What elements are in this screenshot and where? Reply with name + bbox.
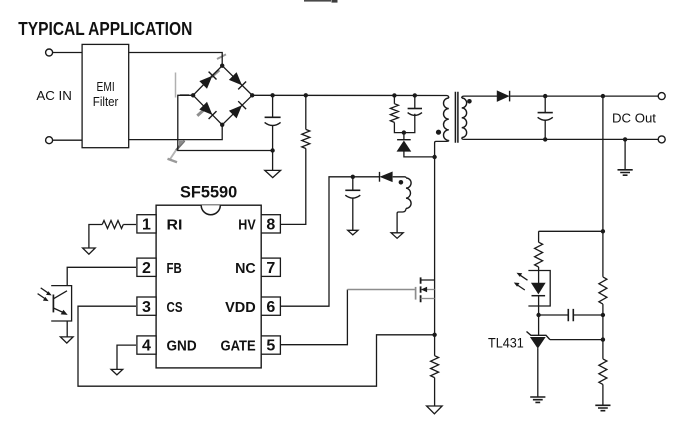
svg-text:FB: FB xyxy=(167,260,182,277)
svg-text:TYPICAL APPLICATION: TYPICAL APPLICATION xyxy=(18,19,192,39)
svg-text:1: 1 xyxy=(142,217,151,234)
svg-text:CS: CS xyxy=(167,299,183,316)
svg-text:2: 2 xyxy=(142,260,151,277)
svg-text:TL431: TL431 xyxy=(488,335,524,351)
svg-text:3: 3 xyxy=(142,299,151,316)
svg-text:SF5590: SF5590 xyxy=(180,184,237,202)
svg-text:DC Out: DC Out xyxy=(612,111,656,126)
svg-text:Filter: Filter xyxy=(93,94,119,109)
svg-text:HV: HV xyxy=(238,217,256,234)
svg-text:GND: GND xyxy=(167,338,197,355)
svg-text:4: 4 xyxy=(142,338,151,355)
svg-text:6: 6 xyxy=(266,299,275,316)
svg-text:VDD: VDD xyxy=(225,299,256,316)
svg-text:5: 5 xyxy=(266,338,275,355)
svg-text:NC: NC xyxy=(235,260,256,277)
svg-text:EMI: EMI xyxy=(97,79,115,94)
svg-text:RI: RI xyxy=(167,217,183,234)
svg-text:AC IN: AC IN xyxy=(36,88,71,103)
svg-text:7: 7 xyxy=(266,260,275,277)
svg-text:GATE: GATE xyxy=(221,338,256,355)
svg-text:8: 8 xyxy=(266,217,275,234)
